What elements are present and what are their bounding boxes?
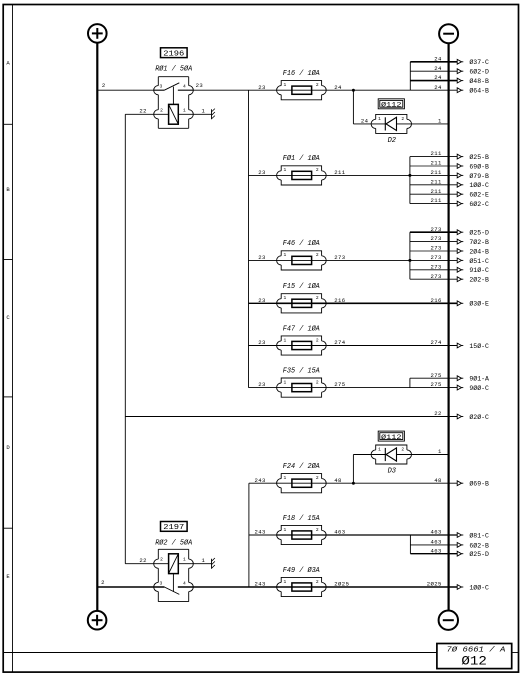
fuse F18/15A body [277,515,327,545]
svg-text:48: 48 [434,477,442,484]
relay R02/50A [125,549,211,601]
wire 2 : +bus to relay R01 pin 3 [97,89,164,91]
svg-text:F49 / Ø3A: F49 / Ø3A [283,566,320,575]
svg-text:D3: D3 [388,468,396,476]
svg-text:243: 243 [255,529,266,536]
svg-text:6Ø2-B: 6Ø2-B [469,541,489,549]
fuse F46/1&#216;A body [277,239,327,270]
svg-text:7Ø2-B: 7Ø2-B [469,238,489,246]
wire 275 : F35 output [249,387,458,389]
fuse F35/15A body [277,367,327,397]
svg-text:1: 1 [284,82,287,88]
wire 22 to 020-C [125,416,457,418]
wire 463 : F18 output [277,534,458,536]
svg-text:1: 1 [284,252,287,258]
diode D2 [371,114,411,145]
svg-text:1: 1 [438,118,442,125]
svg-text:F15 / 1ØA: F15 / 1ØA [283,282,320,291]
inner bottom frame line [3,652,437,654]
wire 273 branch to 910-C [410,269,457,271]
svg-text:F47 / 1ØA: F47 / 1ØA [283,324,320,333]
svg-text:211: 211 [431,150,443,157]
svg-text:274: 274 [334,339,346,346]
svg-text:273: 273 [431,273,442,280]
wire 463 branch to 602-B [410,544,457,546]
svg-text:69Ø-B: 69Ø-B [469,162,489,170]
svg-text:Ø112: Ø112 [381,433,402,442]
svg-text:2: 2 [316,527,319,533]
svg-text:2: 2 [401,447,404,453]
svg-text:9Ø1-A: 9Ø1-A [469,375,489,383]
wire 216 : F15 row to 030-E [277,302,458,304]
svg-text:Ø64-B: Ø64-B [469,87,489,95]
wire 211 branch to 602-E [410,193,457,195]
svg-text:24: 24 [334,84,342,91]
svg-text:1: 1 [284,579,287,585]
wire 274 : F47 row to 150-C [249,345,458,347]
svg-text:2: 2 [316,82,319,88]
svg-text:1: 1 [284,167,287,173]
svg-text:24: 24 [361,118,369,125]
svg-text:RØ2 / 5ØA: RØ2 / 5ØA [155,538,192,547]
svg-text:211: 211 [431,169,443,176]
svg-text:1: 1 [183,557,186,563]
connector label box 0112 [378,99,404,110]
svg-text:22: 22 [434,410,442,417]
svg-text:Ø69-B: Ø69-B [469,480,489,488]
component code box 2196 [161,48,188,58]
wire 24 branch to 037-C [410,61,457,63]
wire 273 branch to 202-B [410,278,457,280]
svg-text:22: 22 [139,557,147,564]
svg-text:211: 211 [431,178,443,185]
branch vertical wire 463 [409,535,411,554]
fuse F16/1&#216;A body [277,69,327,100]
junction node on wire 24 [352,89,355,92]
wire 211 branch to 100-C [410,184,457,186]
svg-text:243: 243 [255,581,266,588]
ground minus terminal (top) [439,24,458,43]
svg-text:22: 22 [139,108,147,115]
svg-text:211: 211 [431,160,443,167]
svg-text:Ø37-C: Ø37-C [469,58,489,66]
wire 24 branch to 602-D [410,70,457,72]
wire tap to diode D3 [352,455,354,484]
svg-text:23: 23 [258,297,266,304]
svg-text:24: 24 [434,74,442,81]
wire 22 : R01 coil feed vertical [124,114,126,563]
ground (chassis) at R&#216;1 / 5&#216;A pin 1 [212,109,215,120]
wire 48 : F24 row to 069-B [249,482,457,484]
svg-text:1: 1 [284,527,287,533]
svg-text:216: 216 [334,297,345,304]
wire 463 branch to 025-D [410,553,457,555]
svg-text:1: 1 [202,557,206,564]
wire 273 branch to 702-B [410,241,457,243]
svg-text:275: 275 [431,381,442,388]
svg-text:275: 275 [431,372,442,379]
branch vertical wire 273 [409,232,411,279]
ground minus terminal (bottom) [439,611,458,630]
wire 211 : F01 output [249,174,458,176]
diode D3 [371,445,411,476]
fuse F49/&#216;3A body [277,566,327,597]
svg-text:Ø51-C: Ø51-C [469,257,489,265]
wire 216 : F15 input [249,302,277,304]
wire 273 : F46 output [249,259,458,261]
svg-text:2Ø4-B: 2Ø4-B [469,247,489,255]
svg-text:D2: D2 [388,137,396,145]
svg-text:23: 23 [258,169,266,176]
svg-text:6Ø2-E: 6Ø2-E [469,191,489,199]
wire 24 drop to diode D2 [352,90,354,124]
fuse F15/1&#216;A body [277,282,327,313]
svg-text:F35 / 15A: F35 / 15A [283,367,320,375]
svg-text:Ø81-C: Ø81-C [469,531,489,539]
svg-text:463: 463 [431,547,442,554]
ground (chassis) at R&#216;2 / 5&#216;A pin 1 [212,558,215,569]
svg-text:1: 1 [284,295,287,301]
svg-text:463: 463 [431,539,442,546]
wire 211 branch to 690-B [410,165,457,167]
svg-text:24: 24 [434,84,442,91]
wire 273 branch to 025-D [410,231,457,233]
svg-text:F16 / 1ØA: F16 / 1ØA [283,69,320,78]
svg-text:211: 211 [334,169,346,176]
margin zone dividers [3,124,12,528]
svg-text:1: 1 [202,108,206,115]
+supply bus (left vertical) [96,43,98,611]
svg-text:211: 211 [431,197,443,204]
branch vertical wire 24 [409,62,411,90]
wire 211 branch to 602-C [410,203,457,205]
svg-text:Ø25-D: Ø25-D [469,550,489,558]
svg-text:Ø48-B: Ø48-B [469,77,489,85]
fuse F47/1&#216;A body [277,324,327,355]
svg-text:23: 23 [258,381,266,388]
svg-text:F24 / 2ØA: F24 / 2ØA [283,462,320,471]
junction node on wire 48 [352,482,355,485]
svg-text:1ØØ-C: 1ØØ-C [469,583,489,591]
wire 24 : F16 output [277,89,458,91]
svg-text:273: 273 [431,263,442,270]
svg-text:463: 463 [334,529,345,536]
wire 2025 : F49 row to 100-C [277,586,458,588]
svg-text:3: 3 [160,84,163,90]
svg-text:2: 2 [316,379,319,385]
svg-text:463: 463 [431,529,442,536]
svg-text:RØ1 / 5ØA: RØ1 / 5ØA [155,65,192,74]
svg-text:23: 23 [258,254,266,261]
svg-text:273: 273 [431,254,442,261]
wire 243 : relay R02 pin 4 to fuse F49 [178,586,277,588]
svg-text:273: 273 [431,245,442,252]
margin zone letters A-E [6,59,10,580]
svg-text:1: 1 [378,447,381,453]
svg-text:2: 2 [401,116,404,122]
svg-text:2: 2 [160,557,163,563]
svg-text:Ø2Ø-C: Ø2Ø-C [469,413,489,421]
svg-text:F46 / 1ØA: F46 / 1ØA [283,239,320,248]
svg-text:2: 2 [316,167,319,173]
branch vertical wire 275 [409,378,411,387]
svg-text:24: 24 [434,65,442,72]
svg-text:243: 243 [255,477,266,484]
wire 24 into D2 and wire 1 to ground bus [353,123,448,125]
svg-text:1: 1 [284,337,287,343]
svg-text:1: 1 [378,116,381,122]
junction node wire 273 [408,259,411,262]
fuse F24/2&#216;A body [277,462,327,493]
component code box 2197 [161,522,188,532]
svg-text:15Ø-C: 15Ø-C [469,342,489,350]
svg-text:2: 2 [101,579,105,586]
svg-text:Ø79-B: Ø79-B [469,172,489,180]
branch vertical wire 211 [409,157,411,204]
svg-text:275: 275 [334,381,345,388]
svg-text:1ØØ-C: 1ØØ-C [469,181,489,189]
svg-text:2: 2 [316,252,319,258]
wire 211 branch to 025-B [410,156,457,158]
fuse feeder vertical wire 23 [248,90,250,387]
svg-text:1: 1 [183,107,186,113]
svg-text:2: 2 [316,337,319,343]
svg-text:Ø25-D: Ø25-D [469,229,489,237]
svg-text:9ØØ-C: 9ØØ-C [469,384,489,392]
fuse F&#216;1/1&#216;A body [277,154,327,185]
wire 24 branch to 048-B [410,80,457,82]
svg-text:48: 48 [334,477,342,484]
svg-text:2197: 2197 [163,524,184,532]
svg-text:4: 4 [183,580,186,586]
svg-text:4: 4 [183,84,186,90]
svg-text:2: 2 [316,579,319,585]
wire into D3 and wire 1 to ground bus [353,454,448,456]
svg-text:2196: 2196 [163,50,184,58]
battery plus terminal (top) [88,24,107,43]
battery plus terminal (bottom) [88,611,107,630]
svg-text:273: 273 [431,235,442,242]
lower fuse feeder vertical wire 243 [248,483,250,587]
wire 463 : F18 input [249,534,277,536]
svg-text:FØ1 / 1ØA: FØ1 / 1ØA [283,154,320,163]
svg-text:1: 1 [284,379,287,385]
svg-text:2Ø2-B: 2Ø2-B [469,276,489,284]
svg-text:6Ø2-C: 6Ø2-C [469,200,489,208]
svg-text:F18 / 15A: F18 / 15A [283,515,320,523]
wire 275 branch to 901-A [410,377,457,379]
svg-text:23: 23 [196,82,204,89]
svg-text:2: 2 [160,107,163,113]
svg-text:211: 211 [431,188,443,195]
svg-text:6Ø2-D: 6Ø2-D [469,68,489,76]
svg-text:23: 23 [258,84,266,91]
svg-text:2: 2 [316,475,319,481]
svg-text:Ø25-B: Ø25-B [469,153,489,161]
wire 273 branch to 204-B [410,250,457,252]
svg-text:3: 3 [160,580,163,586]
connector label box 0112 [378,431,404,442]
margin column line [12,5,14,673]
svg-text:2: 2 [316,295,319,301]
svg-text:273: 273 [334,254,345,261]
svg-text:Ø12: Ø12 [461,653,487,668]
svg-text:216: 216 [431,297,442,304]
svg-text:2Ø25: 2Ø25 [427,581,442,588]
svg-text:Ø112: Ø112 [381,101,402,110]
ground bus (right vertical) [448,43,450,610]
svg-text:91Ø-C: 91Ø-C [469,266,489,274]
svg-text:2Ø25: 2Ø25 [334,581,349,588]
svg-text:1: 1 [438,448,442,455]
svg-text:273: 273 [431,226,442,233]
wire 2 : +bus to relay R02 pin 3 [97,586,164,588]
svg-text:24: 24 [434,55,442,62]
wire 23 : relay R01 pin 4 to fuse feeder [178,89,277,91]
title block 70 6661/A 012 [437,644,512,669]
svg-text:23: 23 [258,339,266,346]
svg-text:2: 2 [102,82,106,89]
svg-text:1: 1 [284,475,287,481]
relay R01/50A [125,77,211,129]
svg-text:Ø3Ø-E: Ø3Ø-E [469,300,489,308]
svg-text:274: 274 [431,339,443,346]
junction node wire 211 [408,174,411,177]
